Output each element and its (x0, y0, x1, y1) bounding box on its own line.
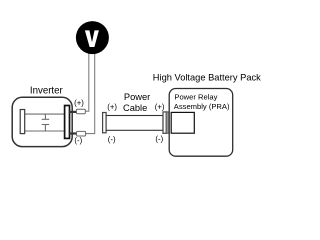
high voltage battery pack box (169, 89, 233, 157)
capacitor C1 (smoothing capacitor) (42, 114, 50, 131)
inverter left internal bar (20, 110, 25, 134)
label (-) inverter terminal (74, 136, 82, 145)
label Inverter (30, 85, 64, 96)
svg-text:High Voltage Battery Pack: High Voltage Battery Pack (153, 73, 261, 83)
wire voltmeter (+) lead down to inverter (+) terminal (85, 50, 89, 111)
power cable left connector bar (103, 113, 107, 133)
label Power Cable (123, 92, 150, 113)
label (+) battery side (155, 102, 165, 111)
svg-text:Inverter: Inverter (30, 85, 64, 96)
label (-) battery side (155, 135, 163, 144)
label (+) inverter terminal (74, 99, 84, 108)
label (-) power cable left end (108, 135, 116, 144)
battery side receptacle bar (gray) (166, 112, 169, 133)
label Power Relay Assembly (PRA) (174, 93, 230, 112)
inverter (-) terminal tab (77, 131, 86, 136)
svg-text:Cable: Cable (123, 103, 147, 113)
svg-text:(+): (+) (107, 103, 117, 112)
inverter (-) terminal stub (69, 132, 77, 134)
inverter (+) terminal tab (76, 109, 85, 114)
inverter (+) terminal stub (69, 111, 77, 113)
svg-text:Power Relay: Power Relay (174, 93, 217, 102)
svg-text:Power: Power (124, 92, 150, 102)
svg-text:(-): (-) (108, 135, 116, 144)
voltmeter V1 (76, 21, 109, 54)
inverter internal bus rail bottom (24, 130, 64, 132)
svg-text:Assembly (PRA): Assembly (PRA) (174, 102, 230, 111)
svg-text:(+): (+) (74, 99, 84, 108)
label (+) power cable left end (107, 103, 117, 112)
svg-text:(-): (-) (155, 135, 163, 144)
wire voltmeter (-) lead down to inverter (-) terminal (86, 50, 95, 134)
power cable right connector bar (163, 112, 166, 133)
inverter right terminal bar (65, 106, 70, 139)
inverter box (12, 97, 72, 146)
svg-text:(-): (-) (74, 136, 82, 145)
inverter internal bus rail top (24, 113, 64, 115)
power cable body (106, 116, 163, 131)
label High Voltage Battery Pack (153, 73, 261, 83)
power relay assembly box (171, 112, 194, 133)
svg-text:(+): (+) (155, 102, 165, 111)
